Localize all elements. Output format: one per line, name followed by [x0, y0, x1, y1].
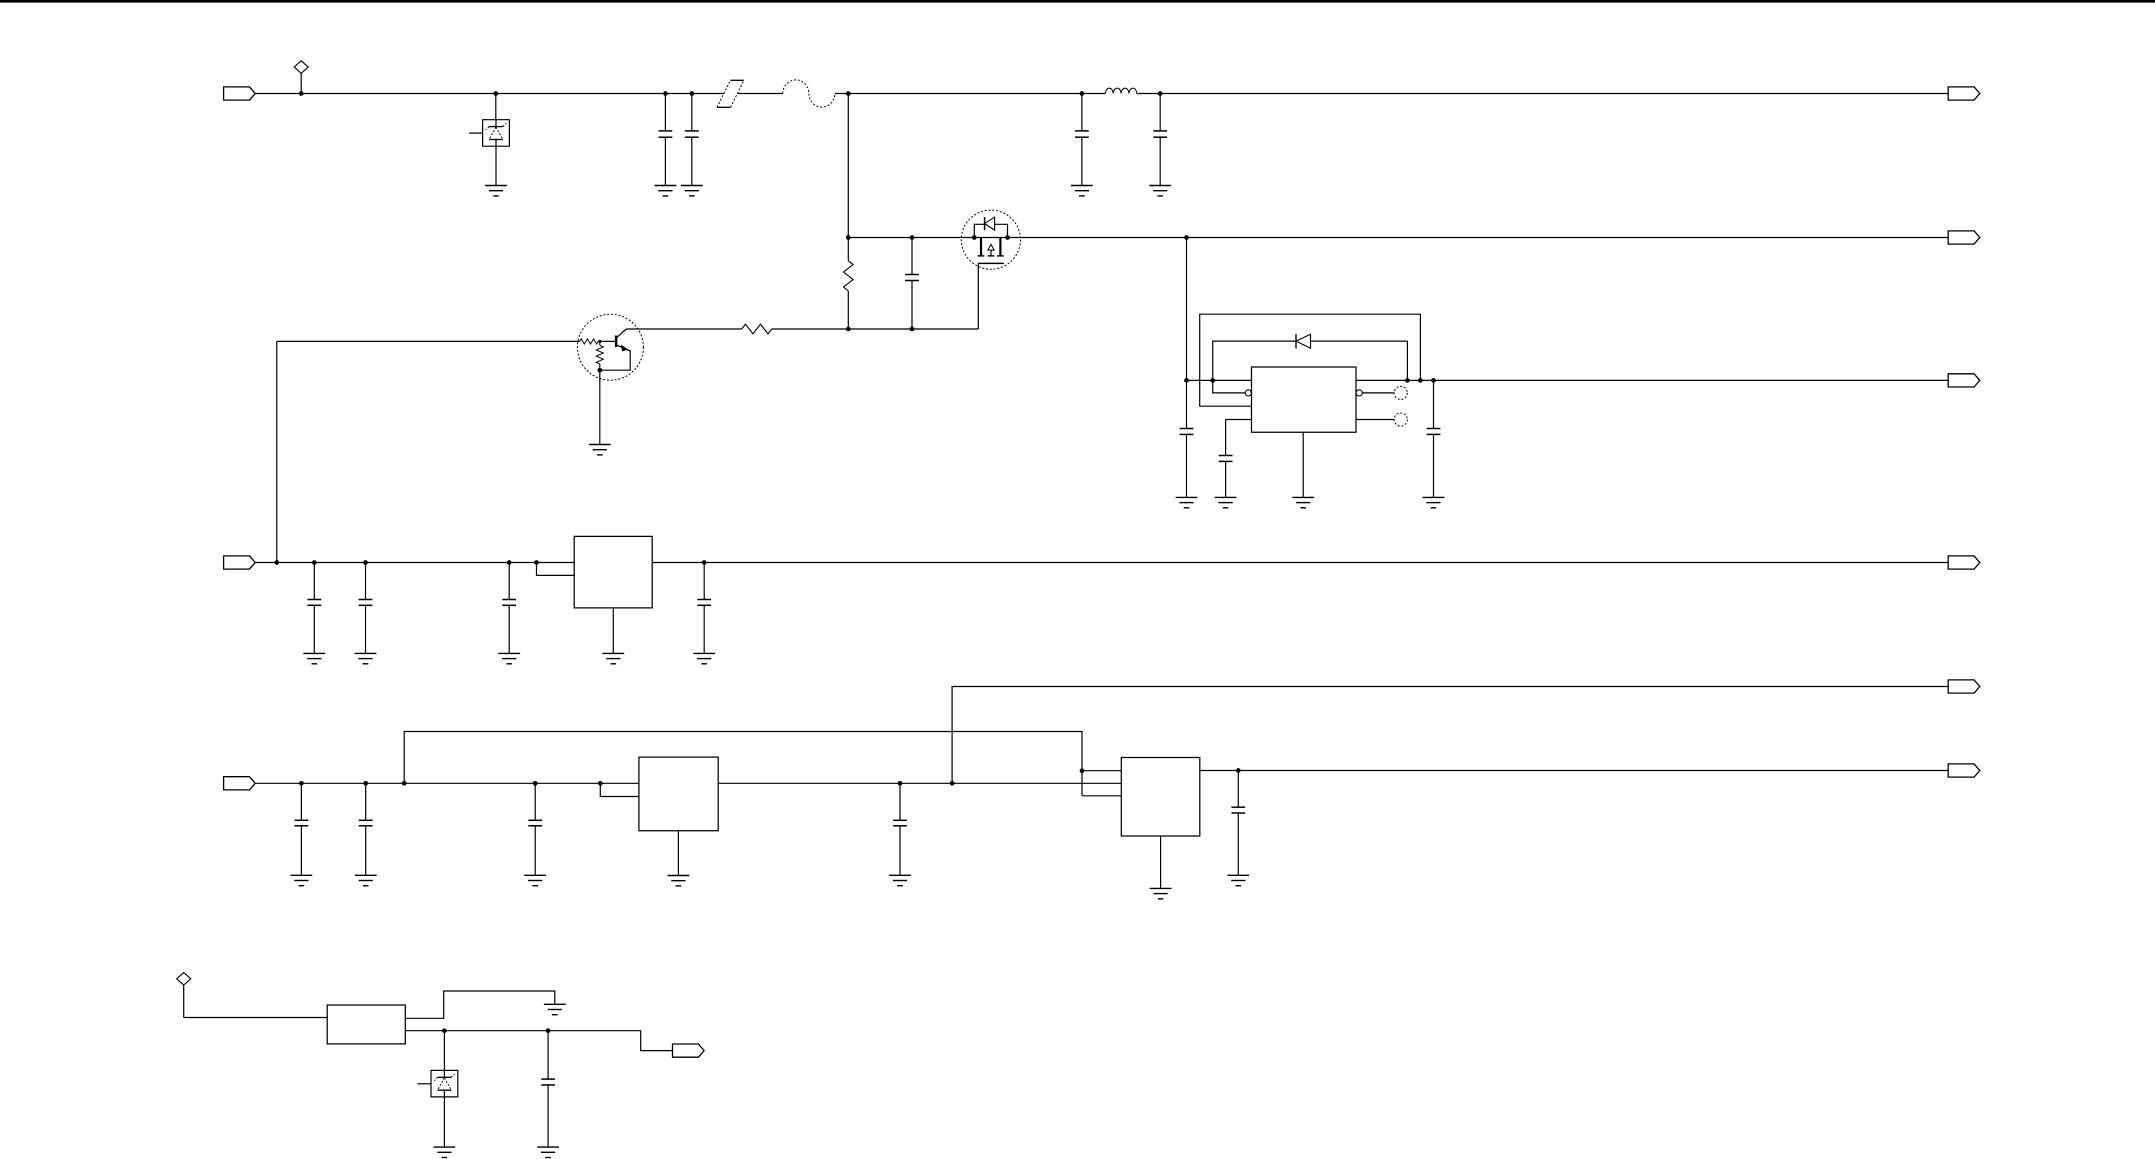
- wire vertical row2-to-row3: [1186, 238, 1188, 381]
- wire row6 mid segment: [718, 782, 1121, 784]
- ground C7: [1215, 497, 1237, 507]
- wire row5: [952, 687, 1948, 784]
- net flag diamond row1: [294, 61, 308, 94]
- capacitor C3: [1075, 94, 1089, 186]
- wire row4 left segment: [255, 562, 574, 564]
- wire row3 left segment: [1187, 379, 1252, 381]
- MOSFET Q2: [961, 210, 1020, 269]
- junction row4 C11: [507, 560, 512, 565]
- wire row6 left segment: [255, 782, 639, 784]
- thermistor RT1 S-curve: [783, 80, 835, 107]
- capacitor C13: [295, 783, 309, 875]
- junction inner loop rail: [1210, 378, 1215, 383]
- connector J1 row1 left input: [224, 87, 256, 100]
- resistor R2 vertical: [844, 238, 854, 330]
- ground U1: [602, 653, 624, 663]
- wire U4 ground route: [405, 991, 555, 1018]
- ground C10: [355, 653, 377, 663]
- IC U5 supervisor: [1245, 367, 1362, 432]
- wire row3 right segment: [1356, 379, 1948, 381]
- wire row1 right segment a: [835, 93, 1106, 95]
- IC U2 filter: [639, 757, 718, 831]
- wire U5 inner loop: [1213, 341, 1408, 393]
- connector J7 row5 right output: [1948, 680, 1980, 693]
- ground C8: [1423, 497, 1445, 507]
- ground Q1: [589, 445, 611, 455]
- wire TVS D4 bottom lead: [443, 1097, 445, 1147]
- junction row2 C5 top: [910, 235, 915, 240]
- capacitor C4: [1153, 94, 1167, 186]
- junction row1 C2: [689, 91, 694, 96]
- wire U3 pin1 stub: [1082, 770, 1121, 772]
- wire U5 ground pin: [1302, 432, 1304, 497]
- wire TVS D2 top lead: [495, 94, 497, 120]
- capacitor C6: [1180, 380, 1194, 497]
- IC U3 regulator: [1121, 758, 1200, 837]
- capacitor C5: [905, 238, 919, 330]
- ground TVS D4: [434, 1147, 456, 1157]
- TVS diode D4: [418, 1070, 458, 1097]
- junction row1 C3: [1080, 91, 1085, 96]
- junction U4 output C18: [546, 1028, 551, 1033]
- resistor R3 horizontal: [742, 324, 772, 334]
- connector J5 row4 left input: [224, 556, 256, 569]
- wire row1 left segment: [255, 93, 724, 95]
- wire row4 right segment: [652, 562, 1948, 564]
- ground C9: [303, 653, 325, 663]
- wire row6-to-U3 bridge: [404, 732, 1082, 796]
- capacitor C1: [659, 94, 673, 186]
- ground C14: [355, 875, 377, 885]
- junction row2 to row3: [1184, 235, 1189, 240]
- capacitor C9: [307, 563, 321, 654]
- junction row3 C8: [1431, 378, 1436, 383]
- ground C11: [498, 653, 520, 663]
- ground U5: [1292, 497, 1314, 507]
- junction inner loop right: [1405, 378, 1410, 383]
- wire U2 enable stub: [600, 783, 639, 796]
- wire TVS D4 top lead: [443, 1031, 445, 1071]
- capacitor C8: [1427, 380, 1441, 497]
- wire U4 output: [405, 1031, 672, 1051]
- ground C13: [291, 875, 313, 885]
- wire U3 pin3 stub: [1082, 795, 1121, 797]
- junction row1 diamond: [299, 91, 304, 96]
- wire Q1 base run: [277, 340, 580, 342]
- capacitor C16: [893, 783, 907, 875]
- junction row1 C1: [663, 91, 668, 96]
- ground C16: [889, 875, 911, 885]
- junction row6 C14: [363, 781, 368, 786]
- ground U2: [668, 876, 690, 886]
- wire row2: [848, 237, 1948, 239]
- test point TP2: [1394, 413, 1407, 426]
- junction row4 C12: [702, 560, 707, 565]
- wire U5 to TP1: [1362, 392, 1394, 394]
- wire U5 cap pin: [1226, 419, 1252, 421]
- connector J8 row6 left input: [224, 777, 256, 790]
- capacitor C10: [359, 563, 373, 654]
- wire bottom input: [184, 1017, 328, 1019]
- junction bridge at row6: [402, 781, 407, 786]
- connector J3 row2 right output: [1948, 231, 1980, 244]
- junction row1 TVS tap: [493, 91, 498, 96]
- junction row6 C16: [898, 781, 903, 786]
- connector J10 bottom output: [673, 1044, 705, 1057]
- ground C1: [655, 186, 677, 196]
- ground U4 route: [544, 1004, 566, 1014]
- connector J9 U3 output right: [1948, 764, 1980, 777]
- wire Q1 collector: [626, 328, 741, 330]
- junction U4 output TVS: [442, 1028, 447, 1033]
- junction gate-node R2: [846, 327, 851, 332]
- IC U1 filter: [574, 536, 652, 608]
- junction row6 C15: [533, 781, 538, 786]
- junction row6 U2 stub: [598, 781, 603, 786]
- ground C6: [1176, 497, 1198, 507]
- wire Q2 gate: [977, 263, 979, 329]
- junction outer loop right: [1418, 378, 1423, 383]
- wire TVS D2 bottom lead: [495, 146, 497, 185]
- junction row1 C4: [1158, 91, 1163, 96]
- wire row1 fuse-to-thermistor: [738, 93, 783, 95]
- wire row1 right segment b: [1137, 93, 1948, 95]
- diode D3: [1296, 334, 1311, 348]
- capacitor C7: [1219, 420, 1233, 498]
- junction U3 output C17: [1236, 768, 1241, 773]
- fuse F1: [717, 80, 744, 107]
- transistor Q1: [577, 314, 643, 380]
- wire U3 ground pin: [1160, 836, 1162, 888]
- ground C2: [681, 186, 703, 196]
- ground U3: [1150, 888, 1172, 898]
- wire U5 outer loop: [1200, 314, 1421, 406]
- junction row4 U1 stub: [534, 560, 539, 565]
- wire Q1 emitter to ground: [599, 370, 601, 444]
- capacitor C18: [541, 1031, 555, 1147]
- junction C5 bottom: [910, 327, 915, 332]
- wire vertical row1-to-row2: [847, 94, 849, 238]
- capacitor C17: [1231, 771, 1245, 876]
- connector J6 row4 right output: [1948, 556, 1980, 569]
- ground C15: [524, 875, 546, 885]
- wire R3 to gate node: [772, 328, 979, 330]
- wire U2 ground pin: [677, 831, 679, 876]
- capacitor C11: [502, 563, 516, 654]
- capacitor C14: [359, 783, 373, 875]
- wire U5 to TP2: [1356, 419, 1394, 421]
- test point TP1: [1394, 386, 1407, 399]
- capacitor C2: [685, 94, 699, 186]
- junction bridge U3 tap: [1080, 768, 1085, 773]
- ground C4: [1149, 186, 1171, 196]
- connector J2 row1 right output: [1948, 87, 1980, 100]
- ground TVS D2: [485, 186, 507, 196]
- TVS diode D2: [469, 120, 509, 147]
- junction row2 left: [846, 235, 851, 240]
- capacitor C15: [528, 783, 542, 875]
- junction row4 C9: [312, 560, 317, 565]
- junction row6 C13: [299, 781, 304, 786]
- connector J4 row3 right output: [1948, 374, 1980, 387]
- capacitor C12: [697, 563, 711, 654]
- junction row3 left: [1184, 378, 1189, 383]
- ground C3: [1071, 186, 1093, 196]
- inductor L1: [1105, 88, 1136, 93]
- wire Q1 base drop to row4: [276, 341, 278, 562]
- junction row4 C10: [363, 560, 368, 565]
- wire U1 enable stub: [537, 563, 575, 576]
- wire U3 output: [1200, 770, 1948, 772]
- junction row1 feed tap: [846, 91, 851, 96]
- ground C18: [537, 1147, 559, 1157]
- wire U1 ground pin: [612, 608, 614, 654]
- ground C17: [1227, 875, 1249, 885]
- net flag diamond bottom: [177, 973, 191, 1018]
- ground C12: [693, 653, 715, 663]
- junction row4 base drop: [274, 560, 279, 565]
- IC U4 regulator: [327, 1005, 405, 1044]
- junction row5 drop: [950, 781, 955, 786]
